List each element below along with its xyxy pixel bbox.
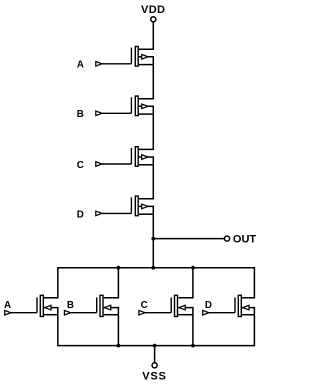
- svg-text:A: A: [77, 60, 84, 71]
- svg-text:C: C: [77, 160, 84, 171]
- svg-text:B: B: [67, 300, 74, 311]
- svg-text:A: A: [4, 300, 11, 311]
- svg-text:VDD: VDD: [141, 4, 165, 16]
- svg-text:OUT: OUT: [233, 234, 257, 246]
- svg-text:D: D: [77, 209, 84, 220]
- svg-text:D: D: [205, 300, 212, 311]
- svg-text:C: C: [141, 300, 148, 311]
- svg-text:B: B: [77, 109, 84, 120]
- svg-text:VSS: VSS: [142, 370, 166, 382]
